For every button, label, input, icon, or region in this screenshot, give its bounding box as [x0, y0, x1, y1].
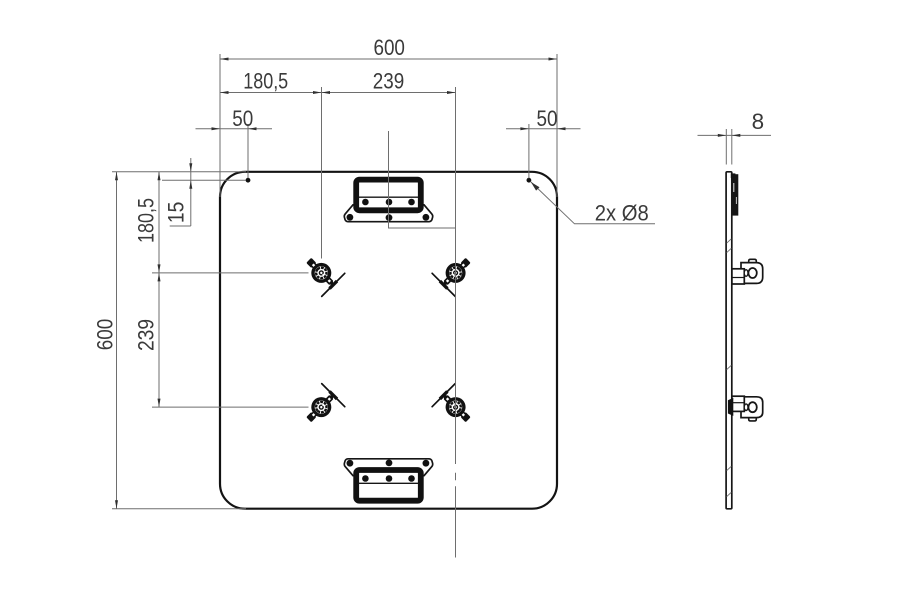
dimension 180,5 left line: [158, 172, 160, 407]
hole top-right: [527, 178, 532, 183]
dimension 600 top line: [220, 58, 557, 60]
svg-text:50: 50: [537, 106, 558, 131]
side lower lock wedge: [728, 398, 733, 416]
handle top cup: [356, 180, 421, 211]
handle bottom inner bolts: [362, 475, 415, 482]
svg-text:2x Ø8: 2x Ø8: [595, 201, 649, 226]
handle top outer plate: [344, 205, 432, 222]
extension line lower lock row left: [152, 406, 309, 408]
side view bar: [726, 172, 732, 509]
twist lock bottom-right: [432, 384, 480, 432]
handle top inner bolts: [362, 199, 415, 206]
handle bottom outer plate: [344, 459, 432, 476]
extension line right lock column: [455, 87, 457, 464]
handle bottom outer bolts: [347, 460, 430, 467]
extension line left hole up: [247, 124, 249, 178]
extension line handle centerline: [389, 131, 456, 228]
dimension 50 top-left: [196, 128, 273, 130]
extension line upper lock row left: [152, 272, 309, 274]
dimension 239 left arrows: [158, 273, 161, 282]
side upper lock clamp divider: [732, 277, 744, 279]
svg-text:8: 8: [752, 109, 765, 134]
side bar break marks: [727, 239, 732, 497]
handle top hinge line: [359, 196, 419, 198]
extension line hole row left: [162, 179, 246, 181]
dimension 239 top arrows: [322, 91, 331, 94]
side upper lock body: [741, 263, 763, 284]
plate outline: [220, 172, 557, 509]
svg-text:600: 600: [92, 319, 117, 351]
extension line right lock column dashed tail: [455, 473, 457, 480]
side lower lock clamp divider: [732, 402, 744, 404]
svg-text:50: 50: [232, 106, 253, 131]
extension line plate left edge up: [219, 54, 221, 197]
extension line plate right edge up: [556, 54, 558, 197]
handle bottom hinge line: [359, 482, 419, 484]
side upper lock ellipses: [748, 268, 756, 278]
svg-text:180,5: 180,5: [133, 198, 158, 243]
dimension 15 left: [190, 158, 192, 226]
dimension 180,5 top line: [220, 92, 456, 94]
dimension 600 left line: [116, 172, 118, 509]
svg-text:600: 600: [373, 35, 405, 60]
svg-text:239: 239: [373, 69, 405, 94]
dimension 50 top-right: [506, 128, 581, 130]
leader 2x d8: [531, 182, 655, 224]
side upper lock clamp: [732, 269, 744, 284]
hole top-left: [246, 178, 251, 183]
side lower lock body: [741, 397, 763, 418]
svg-text:180,5: 180,5: [243, 69, 288, 94]
extension line plate top edge left: [112, 171, 246, 173]
svg-text:239: 239: [133, 319, 158, 351]
side lower lock ellipses: [748, 402, 756, 412]
twist lock bottom-left: [297, 384, 345, 432]
extension line left lock column: [321, 87, 323, 259]
twist lock top-right: [432, 249, 480, 297]
side upper lock notch: [749, 259, 757, 263]
side lower lock notch: [749, 417, 757, 421]
handle bottom cup: [356, 470, 421, 501]
side lower lock clamp: [732, 396, 744, 411]
twist lock top-left: [297, 249, 345, 297]
handle top outer bolts: [347, 214, 430, 221]
extension line right hole up: [528, 124, 530, 178]
svg-text:15: 15: [164, 202, 189, 224]
dimension 8 side: [725, 129, 727, 165]
side handle block: [731, 173, 736, 178]
extension line plate bottom edge left: [112, 508, 246, 510]
